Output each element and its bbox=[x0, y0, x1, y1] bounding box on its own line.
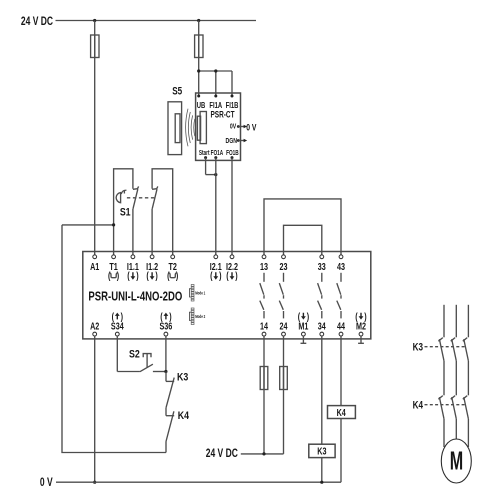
three-phase line L2 bbox=[455, 305, 457, 338]
relay contact 43-44 (internal) bbox=[337, 273, 341, 319]
svg-text:K3: K3 bbox=[317, 446, 326, 457]
svg-text:M1: M1 bbox=[298, 320, 308, 331]
DIP switch Mode 2 bbox=[190, 308, 206, 325]
svg-text:43: 43 bbox=[337, 261, 345, 272]
wire PSR-CT supply drop bbox=[198, 21, 200, 97]
svg-text:Mode 1: Mode 1 bbox=[195, 291, 205, 296]
terminal 14 bbox=[260, 320, 268, 336]
wire 44 to coil K4 bbox=[340, 336, 342, 406]
svg-text:(: ( bbox=[226, 270, 228, 281]
contactor K3 contact L1 bbox=[438, 338, 444, 396]
relay K relay box PSR-UNI-L-4NO-2DO bbox=[83, 252, 371, 339]
wire 14 drop bbox=[263, 336, 265, 454]
svg-text:S36: S36 bbox=[159, 320, 172, 331]
junction coil K3 on 0V rail bbox=[320, 481, 323, 484]
junction Start/FO1A bbox=[214, 173, 217, 176]
contactor K4 contact L2 bbox=[451, 396, 457, 447]
terminal T2 bbox=[167, 255, 178, 281]
terminal 23 bbox=[279, 255, 287, 272]
S1 mechanical link (dashed) bbox=[127, 197, 156, 199]
svg-text:): ) bbox=[176, 270, 178, 281]
feedback contact K4 (NC) bbox=[166, 408, 174, 453]
PSR-CT module U2 box bbox=[196, 93, 241, 160]
terminal I1.1 bbox=[127, 255, 139, 281]
svg-text:(: ( bbox=[298, 311, 300, 322]
svg-text:24 V DC: 24 V DC bbox=[21, 16, 54, 29]
svg-text:M: M bbox=[450, 445, 463, 475]
svg-text:PSR-UNI-L-4NO-2DO: PSR-UNI-L-4NO-2DO bbox=[88, 290, 182, 303]
fuse F2 bbox=[195, 35, 203, 58]
contactor K3 contact L2 bbox=[451, 338, 457, 396]
fuse F4 bbox=[280, 367, 288, 390]
terminal 43 bbox=[337, 255, 345, 272]
svg-text:K3: K3 bbox=[177, 372, 189, 384]
svg-text:(: ( bbox=[127, 270, 129, 281]
wire FO1A to I2.1 bbox=[215, 158, 217, 255]
S1 contact 1 (NC) bbox=[133, 186, 139, 255]
relay contact 33-34 (internal) bbox=[318, 273, 322, 319]
wire 24 drop bbox=[283, 336, 285, 454]
feedback bridge 13-43 bbox=[264, 199, 341, 255]
pin DGN with output stub bbox=[226, 137, 248, 145]
K4 mechanical link (dashed) bbox=[425, 404, 465, 406]
svg-text:33: 33 bbox=[318, 261, 326, 272]
wire 0V bottom rail bbox=[56, 481, 341, 483]
svg-text:M2: M2 bbox=[356, 320, 366, 331]
wire Start to FO1A link bbox=[206, 158, 216, 175]
junction at UB header bbox=[197, 69, 200, 72]
svg-text:K4: K4 bbox=[178, 410, 190, 422]
junction on 24V rail at A1 branch bbox=[93, 19, 96, 22]
wire 34 to coil K3 bbox=[321, 336, 323, 444]
svg-text:UB: UB bbox=[197, 100, 206, 110]
fuse F3 bbox=[260, 367, 268, 390]
terminal A2 bbox=[90, 320, 99, 336]
svg-text:0 V: 0 V bbox=[40, 477, 53, 490]
terminal 33 bbox=[318, 255, 326, 272]
emergency stop S1 wiring loop T1-I1.1 bbox=[114, 169, 133, 255]
svg-text:Mode 2: Mode 2 bbox=[195, 314, 205, 319]
contactor K4 contact L3 bbox=[463, 396, 469, 447]
svg-text:(: ( bbox=[146, 270, 148, 281]
terminal S36 bbox=[159, 311, 172, 336]
pin FO1B bbox=[226, 149, 239, 159]
svg-text:FO1B: FO1B bbox=[226, 149, 239, 157]
K3 mechanical link (dashed) bbox=[425, 346, 465, 348]
wire coil K3 to 0V bbox=[321, 458, 323, 483]
svg-text:24 V DC: 24 V DC bbox=[206, 448, 239, 461]
svg-text:(: ( bbox=[160, 311, 162, 322]
fuse F1 bbox=[91, 35, 99, 58]
terminal I2.2 bbox=[226, 255, 238, 281]
wire supply header to FI1A FI1B bbox=[199, 71, 232, 96]
svg-text:24: 24 bbox=[279, 320, 287, 331]
S1 contact 2 (NC) bbox=[152, 186, 158, 255]
svg-text:(: ( bbox=[210, 270, 212, 281]
wire A1 supply drop bbox=[94, 21, 96, 255]
DIP switch Mode 1 bbox=[190, 285, 206, 302]
emergency stop S1 wiring loop I1.2-T2 bbox=[152, 169, 173, 255]
contactor K3 contact L3 bbox=[463, 338, 469, 396]
wire 24V DC top rail bbox=[56, 20, 257, 22]
wire S34 drop bbox=[116, 336, 118, 372]
svg-text:DGN: DGN bbox=[226, 137, 238, 145]
svg-text:A2: A2 bbox=[90, 320, 99, 331]
svg-text:(: ( bbox=[108, 270, 110, 281]
wire left return (down and to K4 contact) bbox=[62, 225, 166, 453]
feedback bridge 23-33 bbox=[284, 225, 322, 255]
svg-text:0V: 0V bbox=[230, 123, 237, 131]
wire A2 to 0V bbox=[94, 336, 96, 482]
svg-text:): ) bbox=[136, 270, 138, 281]
terminal M2 bbox=[355, 311, 366, 336]
svg-text:K3: K3 bbox=[413, 341, 424, 354]
svg-text:S5: S5 bbox=[172, 86, 182, 99]
svg-text:(: ( bbox=[112, 311, 114, 322]
terminal I2.1 bbox=[210, 255, 222, 281]
start button S2 (NO) bbox=[117, 354, 166, 372]
svg-text:K4: K4 bbox=[413, 399, 424, 412]
svg-text:13: 13 bbox=[260, 261, 268, 272]
svg-text:(: ( bbox=[167, 270, 169, 281]
coil K4 bbox=[328, 406, 356, 419]
terminal I1.2 bbox=[146, 255, 158, 281]
svg-text:S2: S2 bbox=[129, 348, 140, 360]
svg-text:23: 23 bbox=[279, 261, 287, 272]
svg-text:): ) bbox=[235, 270, 237, 281]
pin Start bbox=[199, 149, 210, 159]
stub M1 (open) bbox=[301, 336, 307, 343]
wire FO1B to I2.2 bbox=[231, 158, 233, 255]
pin 0V with output stub bbox=[230, 123, 247, 131]
junction at FI1A header bbox=[214, 69, 217, 72]
svg-text:): ) bbox=[307, 311, 309, 322]
relay contact 13-14 (internal) bbox=[260, 273, 264, 319]
svg-text:A1: A1 bbox=[90, 261, 99, 272]
svg-text:): ) bbox=[121, 311, 123, 322]
S1 mushroom actuator bbox=[116, 190, 126, 203]
motor M bbox=[441, 439, 471, 483]
svg-text:34: 34 bbox=[318, 320, 326, 331]
relay contact 23-24 (internal) bbox=[279, 273, 283, 319]
wire tap from T1 to return line bbox=[62, 224, 114, 226]
wire S36 drop bbox=[165, 336, 167, 372]
terminal 24 bbox=[279, 320, 287, 336]
svg-text:PSR-CT: PSR-CT bbox=[210, 110, 234, 120]
wire coil K4 to 0V bbox=[340, 419, 342, 483]
junction 14 on 24V link bbox=[262, 452, 265, 455]
sensor S5 read head (inside PSR-CT) bbox=[197, 112, 206, 144]
svg-text:44: 44 bbox=[337, 320, 345, 331]
pin FI1B bbox=[226, 95, 239, 111]
junction A2 on 0V rail bbox=[93, 481, 96, 484]
svg-text:FO1A: FO1A bbox=[211, 149, 224, 157]
terminal 44 bbox=[337, 320, 345, 336]
contactor K4 contact L1 bbox=[438, 396, 444, 447]
terminal T1 bbox=[108, 255, 119, 281]
svg-text:0 V: 0 V bbox=[246, 122, 257, 132]
svg-text:): ) bbox=[117, 270, 119, 281]
terminal 13 bbox=[260, 255, 268, 272]
pin UB bbox=[197, 95, 206, 111]
svg-text:S34: S34 bbox=[111, 320, 124, 331]
wire bottom 24V DC link bbox=[241, 453, 284, 455]
junction on T1 wire bbox=[112, 223, 115, 226]
feedback contact K3 (NC) bbox=[166, 372, 174, 408]
svg-text:): ) bbox=[155, 270, 157, 281]
junction S36/S2 bbox=[164, 370, 167, 373]
svg-text:K4: K4 bbox=[337, 407, 346, 418]
terminal A1 bbox=[90, 255, 99, 272]
svg-text:): ) bbox=[169, 311, 171, 322]
terminal M1 bbox=[298, 311, 309, 336]
coil K3 bbox=[309, 444, 335, 457]
three-phase line L1 bbox=[443, 305, 445, 338]
svg-text:): ) bbox=[364, 311, 366, 322]
pin FO1A bbox=[211, 149, 224, 159]
svg-text:): ) bbox=[219, 270, 221, 281]
three-phase line L3 bbox=[467, 305, 469, 338]
stub M2 (open) bbox=[358, 336, 364, 343]
terminal S34 bbox=[111, 311, 124, 336]
pin FI1A bbox=[209, 95, 222, 111]
sensor S5 actuator bbox=[168, 102, 182, 155]
svg-text:S1: S1 bbox=[120, 207, 131, 219]
terminal 34 bbox=[318, 320, 326, 336]
svg-text:14: 14 bbox=[260, 320, 268, 331]
svg-text:(: ( bbox=[355, 311, 357, 322]
junction on 24V rail at PSR-CT branch bbox=[197, 19, 200, 22]
svg-text:Start: Start bbox=[199, 149, 210, 157]
transponder waves S5 bbox=[186, 109, 195, 147]
